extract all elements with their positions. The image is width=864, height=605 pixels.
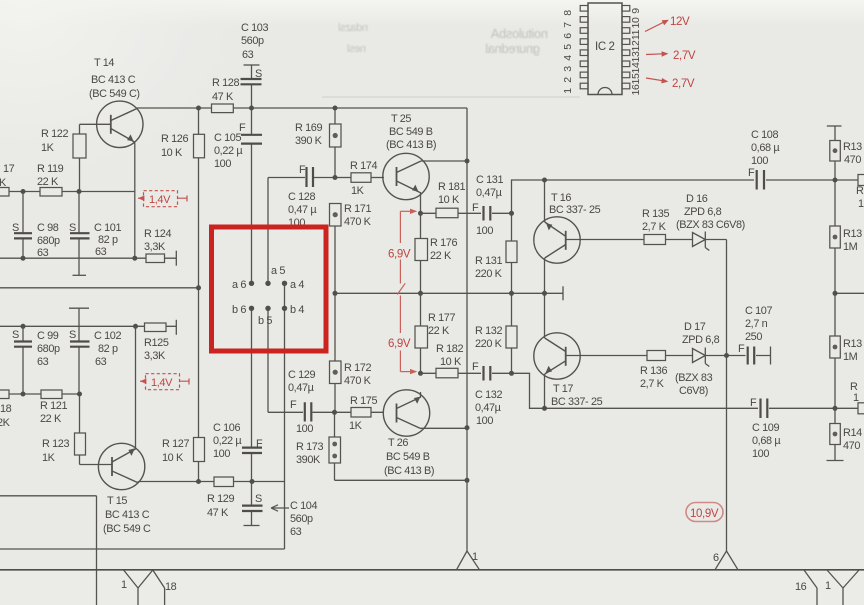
resistor R126	[194, 134, 205, 158]
wire T26 base row	[268, 411, 384, 413]
junction (420.5,373.3)	[418, 371, 423, 376]
red annotation 1.4V lower	[140, 374, 189, 390]
svg-text:470: 470	[844, 154, 861, 166]
svg-text:0,47µ: 0,47µ	[475, 402, 502, 414]
svg-text:63: 63	[290, 526, 302, 538]
resistor R124	[146, 254, 165, 263]
svg-text:11: 11	[630, 29, 642, 40]
svg-text:6: 6	[562, 33, 574, 39]
svg-text:1K: 1K	[41, 142, 55, 154]
wire C106-C104 chain	[251, 308, 253, 525]
junction (420.5,293.3)	[418, 291, 423, 296]
junction (544.5,180)	[542, 178, 547, 183]
svg-text:1: 1	[853, 392, 859, 404]
red arrow 12V	[645, 21, 667, 32]
svg-text:R 181: R 181	[438, 181, 465, 193]
resistor R132	[506, 326, 517, 348]
wire C131 up corner right rail	[512, 180, 859, 213]
svg-text:BC 549 B: BC 549 B	[389, 126, 433, 138]
wire T16 base row	[566, 239, 727, 241]
via dot in R173 lower	[332, 454, 337, 459]
svg-text:6: 6	[713, 552, 719, 564]
wire C99 chain	[22, 326, 24, 394]
svg-text:47 K: 47 K	[212, 91, 234, 103]
svg-text:a 5: a 5	[271, 265, 285, 277]
svg-text:T 16: T 16	[551, 192, 571, 204]
node a6	[249, 281, 254, 286]
arrow pointing to C104	[271, 505, 289, 511]
red annotation 1.4V upper	[138, 191, 187, 207]
node right column bottom bar	[827, 460, 844, 462]
red arrow 2.7V lower	[646, 78, 667, 81]
svg-text:C 128: C 128	[288, 191, 315, 203]
capacitor C107 plates	[748, 347, 755, 365]
svg-text:a 4: a 4	[290, 279, 304, 291]
svg-text:R13: R13	[843, 338, 862, 350]
node b4	[282, 306, 287, 311]
svg-text:C 107: C 107	[745, 305, 772, 317]
svg-text:S: S	[255, 493, 262, 505]
svg-text:0,68 µ: 0,68 µ	[752, 435, 781, 447]
resistor R125	[145, 323, 167, 332]
svg-text:47 K: 47 K	[207, 507, 229, 519]
svg-text:1K: 1K	[349, 420, 363, 432]
junction (835,293.3)	[833, 291, 838, 296]
svg-text:IC 2: IC 2	[595, 41, 615, 53]
wire T17 base row	[566, 355, 727, 357]
svg-text:C 103: C 103	[241, 22, 268, 34]
red annotation 6.9V bracket	[397, 209, 417, 375]
svg-text:22 K: 22 K	[430, 250, 452, 262]
junction (511.5,293.3)	[509, 291, 514, 296]
svg-text:(BC 549 C: (BC 549 C	[103, 523, 151, 535]
capacitor C129 plates	[305, 402, 312, 421]
capacitor C131 plates	[484, 206, 491, 221]
wire R123 chain	[79, 394, 81, 465]
svg-text:C 109: C 109	[752, 422, 779, 434]
junction (835,180)	[833, 178, 838, 183]
capacitor C105 plates	[241, 135, 262, 144]
resistor R119	[40, 188, 62, 197]
svg-text:C 101: C 101	[94, 222, 121, 234]
svg-text:1: 1	[562, 88, 574, 94]
wire R121 row	[0, 393, 80, 395]
svg-text:(BC 413 B): (BC 413 B)	[384, 465, 434, 477]
svg-text:F: F	[472, 202, 479, 214]
wire C98 chain	[22, 192, 24, 259]
svg-text:390 K: 390 K	[295, 135, 323, 147]
svg-text:ZPD 6,8: ZPD 6,8	[684, 206, 722, 218]
svg-text:10 K: 10 K	[438, 194, 460, 206]
svg-text:T 14: T 14	[94, 57, 114, 69]
resistor R141	[830, 424, 841, 445]
svg-text:R: R	[856, 185, 864, 197]
svg-text:6,9V: 6,9V	[388, 249, 411, 261]
node mid rail end bar	[562, 286, 564, 300]
via dot in R171	[333, 212, 338, 217]
svg-text:F: F	[239, 122, 246, 134]
wire C102 chain	[78, 308, 80, 394]
via dot in R169	[333, 133, 338, 138]
junction (467,427.7)	[465, 425, 470, 430]
svg-text:18: 18	[0, 403, 12, 415]
junction (198.5,108)	[196, 106, 201, 111]
svg-text:2: 2	[562, 77, 574, 83]
svg-text:R 129: R 129	[207, 493, 234, 505]
svg-text:1: 1	[121, 579, 127, 591]
resistor R135	[644, 235, 666, 245]
svg-text:C 102: C 102	[94, 330, 121, 342]
wire jog to T17 row	[512, 373, 859, 408]
node b5	[265, 306, 270, 311]
svg-text:R 175: R 175	[350, 395, 377, 407]
svg-text:2,7 n: 2,7 n	[745, 318, 768, 330]
capacitor C128 plates	[307, 167, 314, 187]
svg-text:b 4: b 4	[290, 304, 304, 316]
svg-text:17: 17	[3, 163, 15, 175]
resistor cut at right edge top	[858, 175, 864, 186]
resistor R171	[330, 204, 342, 227]
svg-text:BC 549 B: BC 549 B	[386, 451, 430, 463]
junction (198.5,481.5)	[196, 479, 201, 484]
svg-text:18: 18	[165, 581, 177, 593]
transistor T26	[383, 373, 467, 436]
svg-text:100: 100	[213, 448, 230, 460]
svg-text:S: S	[69, 329, 76, 341]
wire R126-R127 chain	[198, 108, 200, 482]
svg-text:13: 13	[630, 51, 642, 62]
svg-text:noitulosbA: noitulosbA	[490, 26, 548, 41]
junction (511.5,373.3)	[509, 371, 514, 376]
svg-text:1,4V: 1,4V	[151, 377, 173, 389]
resistor R136	[647, 351, 666, 361]
svg-text:a 6: a 6	[232, 279, 246, 291]
svg-text:14: 14	[630, 62, 642, 73]
svg-text:8: 8	[562, 10, 574, 16]
capacitor C132 plates	[484, 366, 491, 381]
junction (335,108)	[333, 106, 338, 111]
svg-text:10 K: 10 K	[440, 356, 462, 368]
svg-text:470 K: 470 K	[344, 216, 372, 228]
svg-text:F: F	[748, 167, 755, 179]
svg-text:16: 16	[630, 84, 642, 95]
svg-text:D 17: D 17	[684, 321, 706, 333]
svg-text:560p: 560p	[241, 35, 264, 47]
via dot in R172	[333, 370, 338, 375]
node C104 bottom bar	[244, 525, 260, 527]
svg-text:R 169: R 169	[295, 122, 322, 134]
svg-text:F: F	[738, 343, 745, 355]
junction (726.5,355.5)	[724, 353, 729, 358]
red oval 10.9V	[686, 503, 723, 522]
resistor R173	[329, 437, 341, 463]
resistor cut at right edge lower	[858, 403, 864, 414]
wire R124 row	[0, 257, 176, 259]
wire a4-b4 and down to bus1	[284, 283, 286, 549]
svg-text:C 105: C 105	[214, 132, 241, 144]
node b6	[249, 306, 254, 311]
wire long left rail	[0, 287, 199, 289]
wire bottom-left frame	[0, 496, 97, 605]
junction (251.5,108)	[249, 106, 254, 111]
resistor R129	[214, 477, 234, 487]
svg-text:gnurednal: gnurednal	[485, 41, 540, 56]
resistor R176	[415, 239, 428, 261]
node a4	[282, 281, 287, 286]
svg-text:1: 1	[472, 551, 478, 563]
resistor R131	[506, 241, 517, 263]
svg-text:0,68 µ: 0,68 µ	[751, 142, 780, 154]
svg-text:C 99: C 99	[37, 330, 59, 342]
wire a5 line	[267, 178, 269, 284]
transistor T14	[97, 101, 143, 147]
svg-text:R 171: R 171	[344, 203, 371, 215]
svg-text:63: 63	[95, 356, 107, 368]
svg-text:R 132: R 132	[475, 325, 502, 337]
capacitor C102 plates	[70, 342, 90, 347]
svg-text:R 172: R 172	[344, 362, 371, 374]
resistor R177	[415, 326, 428, 348]
svg-text:C 106: C 106	[213, 422, 240, 434]
svg-text:0,47µ: 0,47µ	[476, 187, 503, 199]
transistor T25	[383, 153, 429, 199]
via dot in R141	[833, 432, 838, 437]
capacitor C103 plates	[241, 79, 262, 84]
resistor R117 (cut at edge)	[0, 188, 9, 197]
svg-text:(BZX 83: (BZX 83	[675, 372, 713, 384]
wire bus1	[0, 548, 285, 550]
wire T17 collector line	[544, 293, 546, 338]
svg-text:100: 100	[476, 225, 493, 237]
wire C107 row	[727, 355, 771, 357]
junction (335,293.3)	[333, 291, 338, 296]
svg-text:12: 12	[630, 40, 642, 51]
svg-text:2,7 K: 2,7 K	[640, 378, 665, 390]
junction (79.5,394)	[77, 392, 82, 397]
node a5	[265, 281, 270, 286]
junction (544.5,408.3)	[542, 406, 547, 411]
svg-text:10: 10	[630, 17, 642, 28]
resistor R139	[830, 336, 841, 358]
svg-text:560p: 560p	[290, 513, 313, 525]
svg-text:R13: R13	[843, 228, 862, 240]
wire T15 base	[80, 464, 113, 466]
svg-text:2,7V: 2,7V	[673, 50, 696, 62]
wire C103 chain	[251, 65, 253, 283]
wire T16 emitter line	[544, 180, 546, 222]
zener diode D16	[693, 232, 710, 251]
resistor R181	[436, 208, 458, 218]
wire R169-R171 node to R174	[335, 177, 351, 179]
capacitor C106 plates	[242, 448, 262, 453]
svg-text:T 25: T 25	[391, 113, 411, 125]
svg-text:680p: 680p	[37, 235, 60, 247]
svg-text:470: 470	[843, 440, 860, 452]
pin 1 funnel bottom-right	[827, 570, 859, 605]
junction (252,481.5)	[250, 479, 255, 484]
svg-text:1: 1	[858, 198, 864, 210]
svg-text:3: 3	[562, 66, 574, 72]
node C107 end bar	[770, 347, 772, 365]
svg-text:b 6: b 6	[232, 304, 246, 316]
node R125 end bar	[175, 320, 177, 335]
wire T14 base	[80, 123, 112, 125]
svg-text:b 5: b 5	[258, 315, 272, 327]
svg-text:C 129: C 129	[288, 369, 315, 381]
wire C128 row	[268, 177, 335, 179]
via dot in R138	[833, 235, 838, 240]
svg-text:2,7V: 2,7V	[672, 78, 695, 90]
resistor R128	[212, 104, 234, 113]
resistor R138	[830, 226, 841, 248]
wire T25 emitter	[420, 192, 422, 213]
junction (23,326.3)	[21, 324, 26, 329]
svg-text:9: 9	[630, 8, 642, 14]
svg-text:16: 16	[795, 581, 807, 593]
wire T15 emitter line	[135, 326, 137, 449]
svg-text:R 136: R 136	[640, 365, 667, 377]
capacitor C101 plates	[70, 233, 90, 238]
svg-text:R 127: R 127	[162, 438, 189, 450]
svg-text:220 K: 220 K	[475, 268, 503, 280]
svg-text:(BC 549 C): (BC 549 C)	[89, 88, 140, 100]
svg-text:BC 413 C: BC 413 C	[105, 509, 150, 521]
svg-text:R 176: R 176	[430, 237, 457, 249]
resistor R174	[351, 173, 371, 183]
node C101 end bar	[73, 274, 87, 276]
svg-text:100: 100	[476, 415, 493, 427]
svg-text:470 K: 470 K	[344, 375, 372, 387]
capacitor C99 plates	[14, 342, 32, 347]
node C103 top bar	[244, 64, 260, 66]
svg-text:4: 4	[562, 55, 574, 61]
svg-text:F: F	[299, 164, 306, 176]
svg-text:100: 100	[751, 155, 768, 167]
svg-text:7: 7	[562, 22, 574, 28]
svg-text:2K: 2K	[0, 417, 11, 429]
resistor R121	[41, 390, 62, 399]
svg-text:F: F	[256, 438, 263, 450]
resistor R122	[73, 134, 86, 158]
wire lower emitter row	[421, 372, 512, 374]
svg-text:22 K: 22 K	[428, 325, 450, 337]
junction (467,161)	[465, 159, 470, 164]
junction (335,177.5)	[333, 175, 338, 180]
wire R174 to T25 base	[371, 177, 384, 179]
wire R173 chain to T26 loop	[335, 412, 468, 480]
resistor R137	[830, 141, 841, 162]
svg-text:2,7 K: 2,7 K	[642, 221, 667, 233]
junction (79,191.5)	[77, 189, 82, 194]
svg-text:C 131: C 131	[476, 174, 503, 186]
svg-text:R 126: R 126	[161, 133, 188, 145]
wire T25 emitter row to C131	[421, 212, 512, 214]
resistor R123	[75, 433, 86, 455]
svg-text:BC 337- 25: BC 337- 25	[549, 204, 601, 216]
svg-text:250: 250	[745, 331, 762, 343]
svg-text:1M: 1M	[843, 351, 858, 363]
svg-text:nesl: nesl	[347, 43, 366, 55]
capacitor C104 plates	[242, 506, 263, 511]
wire R119 row	[0, 191, 135, 193]
svg-text:5: 5	[562, 44, 574, 50]
svg-text:100: 100	[296, 423, 313, 435]
svg-text:(BC 413 B): (BC 413 B)	[386, 139, 436, 151]
svg-text:1K: 1K	[351, 185, 365, 197]
svg-text:10 K: 10 K	[161, 147, 183, 159]
wire D16 corner down	[726, 240, 728, 552]
wire mid rail	[335, 292, 563, 294]
svg-text:1M: 1M	[843, 241, 858, 253]
svg-text:0,22 µ: 0,22 µ	[213, 435, 242, 447]
svg-text:R 174: R 174	[350, 160, 377, 172]
svg-text:100: 100	[752, 448, 769, 460]
transistor T16	[534, 217, 580, 263]
svg-text:ZPD 6,8: ZPD 6,8	[682, 334, 720, 346]
wire bus2 full width	[0, 569, 864, 571]
svg-text:0,47 µ: 0,47 µ	[288, 204, 317, 216]
wire R169 branch top	[334, 108, 336, 177]
junction (198.5,287.8)	[196, 285, 201, 290]
wire R122 chain	[79, 124, 81, 191]
svg-text:220 K: 220 K	[475, 338, 503, 350]
svg-text:C 98: C 98	[37, 222, 59, 234]
wire T25 collector	[421, 160, 467, 162]
label IC2 right pin numbers	[630, 8, 642, 96]
svg-text:3,3K: 3,3K	[144, 350, 166, 362]
resistor R175	[351, 408, 371, 418]
junction (23,258.2)	[21, 256, 26, 261]
junction (135.5,326.3)	[133, 324, 138, 329]
svg-text:C 132: C 132	[475, 389, 502, 401]
node right column top bar	[827, 125, 842, 127]
svg-text:F: F	[290, 399, 297, 411]
junction (23,191.5)	[21, 189, 26, 194]
svg-text:0,47µ: 0,47µ	[288, 382, 315, 394]
wire R176 chain	[420, 213, 422, 293]
svg-text:R 122: R 122	[41, 128, 68, 140]
op-amp IC2 DIP package	[580, 3, 630, 95]
svg-text:T 15: T 15	[107, 495, 127, 507]
wire T15 collector row	[139, 481, 285, 483]
wire T14 emitter line	[134, 144, 136, 258]
capacitor C108 plates	[757, 170, 764, 190]
svg-text:R14: R14	[843, 427, 862, 439]
svg-text:R 182: R 182	[436, 343, 463, 355]
junction (334.5,412.3)	[332, 410, 337, 415]
svg-text:12V: 12V	[670, 16, 690, 28]
svg-text:R125: R125	[144, 337, 169, 349]
svg-text:S: S	[12, 329, 19, 341]
svg-text:BC 337- 25: BC 337- 25	[551, 396, 603, 408]
svg-text:63: 63	[37, 247, 49, 259]
svg-text:6,9V: 6,9V	[388, 338, 411, 350]
wire right column	[834, 126, 836, 461]
svg-text:R 123: R 123	[42, 438, 69, 450]
resistor R172	[330, 361, 342, 384]
svg-text:S: S	[69, 222, 76, 234]
svg-text:(BZX 83 C6V8): (BZX 83 C6V8)	[676, 219, 745, 231]
wire R125 row	[0, 325, 176, 327]
via dot in R137	[833, 148, 838, 153]
svg-text:22 K: 22 K	[37, 176, 59, 188]
svg-text:R 119: R 119	[37, 163, 64, 175]
svg-text:1K: 1K	[42, 452, 56, 464]
svg-text:15: 15	[630, 73, 642, 84]
junction (420.5,213.3)	[418, 211, 423, 216]
svg-text:63: 63	[37, 356, 49, 368]
svg-text:R 128: R 128	[212, 77, 239, 89]
